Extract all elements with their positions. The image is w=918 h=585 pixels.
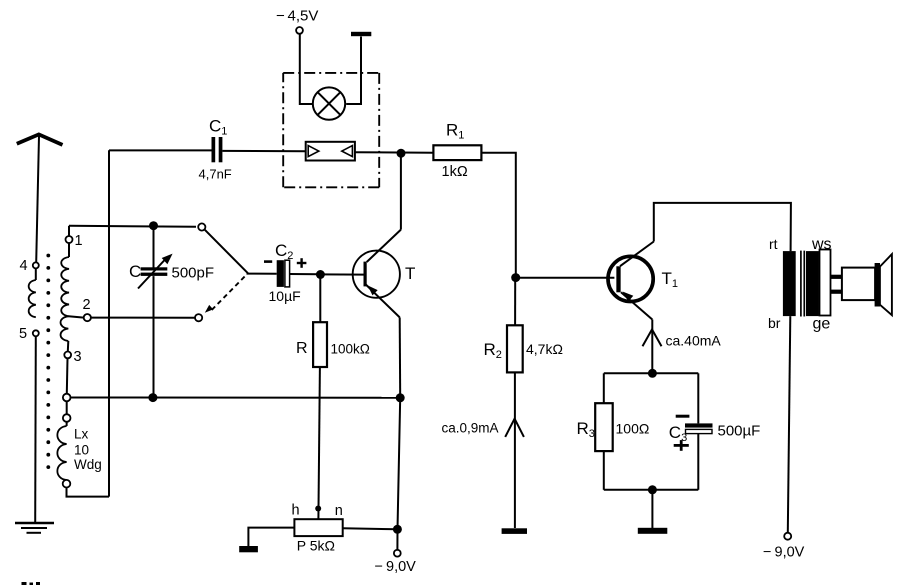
wire terminal 3 down (66, 358, 69, 393)
variable capacitor C 500pF (129, 254, 214, 289)
resistor R3 100 (577, 403, 650, 451)
svg-text:rt: rt (769, 236, 778, 252)
svg-text:R: R (296, 340, 308, 357)
svg-text:P 5kΩ: P 5kΩ (297, 537, 335, 553)
wire C1 to connector (222, 150, 305, 152)
wire feedback rail (left vertical) (108, 150, 110, 496)
wire lamp to chassis (346, 37, 361, 105)
svg-text:T: T (405, 264, 415, 283)
earth ground (antenna coil) (15, 523, 54, 533)
terminal -9,0V (left) (375, 550, 417, 575)
ferrite core (dotted line) (46, 254, 50, 469)
coil tuned winding middle (tap 2 to terminal 3) (61, 316, 69, 351)
wire terminal 5 to earth ground (34, 336, 37, 522)
wire R3 to bottom (603, 451, 605, 490)
switch contact bottom (195, 314, 202, 321)
svg-text:ca.40mA: ca.40mA (666, 332, 722, 348)
lamp (313, 87, 345, 119)
transistor T (353, 230, 416, 318)
wire T1 emitter down (651, 320, 653, 374)
svg-text:Lx: Lx (74, 427, 89, 442)
wire base node to R2 (514, 278, 516, 326)
node collector T (397, 149, 406, 158)
wire tap 2 to switch contact (91, 317, 195, 319)
switch arm (205, 230, 248, 274)
terminal -9,0V (right) (763, 533, 805, 561)
current arrow ca.40mA (643, 329, 722, 348)
node tuning capacitor bottom (148, 393, 157, 402)
node emitter T1 (648, 369, 657, 378)
svg-text:3: 3 (74, 349, 82, 365)
terminal 4 (20, 258, 39, 274)
node emitter T (396, 393, 405, 402)
svg-text:−: − (763, 545, 771, 561)
antenna (17, 134, 63, 145)
wire top to C3 (697, 373, 699, 423)
svg-text:1kΩ: 1kΩ (442, 164, 468, 180)
svg-text:ge: ge (813, 315, 831, 332)
resistor R2 4,7k (484, 325, 563, 372)
svg-text:10µF: 10µF (269, 288, 301, 304)
svg-text:T1: T1 (662, 269, 679, 290)
svg-text:9,0V: 9,0V (775, 545, 805, 561)
wire base node to T1 (516, 277, 615, 279)
resistor R 100k (296, 322, 370, 367)
svg-text:4,5V: 4,5V (288, 8, 319, 25)
svg-text:n: n (335, 503, 343, 519)
terminal 1 (66, 233, 83, 249)
capacitor C2 10uF (264, 241, 306, 304)
wire T1 collector to transformer (654, 203, 791, 251)
coil terminal (Lx winding top) (63, 414, 71, 422)
svg-text:ca.0,9mA: ca.0,9mA (442, 421, 499, 436)
wire top to R3 (603, 373, 605, 403)
wire switch to C2 (247, 273, 277, 275)
svg-text:R1: R1 (446, 121, 464, 142)
svg-text:2: 2 (83, 297, 91, 313)
current arrow ca.0,9mA (442, 419, 524, 437)
potentiometer P 5k (292, 502, 343, 553)
wire transformer to -9V terminal (788, 316, 791, 532)
wire T collector to node (400, 153, 402, 229)
svg-text:C2: C2 (275, 241, 293, 262)
chassis ground (R2) (502, 528, 527, 534)
svg-text:br: br (768, 315, 781, 331)
svg-text:5: 5 (19, 326, 27, 342)
svg-text:4,7nF: 4,7nF (199, 166, 232, 181)
tap 2 (69, 297, 91, 321)
coil Lx 10 Wdg winding (57, 422, 101, 480)
wire rail to C1 (109, 149, 212, 151)
coil terminal (Lx winding bottom) (63, 480, 71, 488)
transformer core (801, 251, 804, 317)
svg-text:−: − (276, 8, 285, 25)
wire C2 to base node (290, 273, 321, 275)
chassis ground (lamp) (351, 32, 371, 36)
label ws (811, 236, 832, 253)
wire R3 C3 network bottom (604, 489, 699, 491)
node tuning capacitor top (149, 221, 158, 230)
switch alternate position (dashed arrow) (205, 277, 245, 313)
wire base node to T (320, 273, 363, 275)
chassis ground (potentiometer) (239, 546, 258, 552)
svg-text:C1: C1 (209, 117, 227, 138)
wire R1 to base node T1 (481, 153, 515, 278)
svg-text:R3: R3 (577, 419, 595, 440)
wire tuning node (terminal 1 to switch) (69, 226, 196, 227)
wire T emitter down (399, 317, 402, 397)
svg-text:10: 10 (74, 443, 89, 458)
svg-text:ws: ws (811, 236, 832, 253)
wire C3 to bottom (697, 434, 699, 490)
chassis ground (R3 C3) (638, 528, 668, 534)
label rt (769, 236, 778, 252)
wire R2 to ground (514, 372, 516, 528)
capacitor C1 (199, 117, 232, 182)
wire R to potentiometer wiper (318, 367, 320, 519)
wire between coil terminals (66, 401, 68, 414)
svg-text:Wdg: Wdg (74, 457, 102, 472)
transformer secondary winding ws-ge (806, 251, 819, 316)
transformer primary winding rt-br (783, 251, 796, 316)
node base T (316, 270, 325, 279)
svg-text:C3: C3 (669, 423, 687, 444)
switch contact top (198, 223, 205, 230)
svg-text:100Ω: 100Ω (616, 421, 650, 437)
terminal -4,5V (276, 8, 318, 34)
svg-text:500µF: 500µF (718, 423, 761, 440)
node base T1 (511, 273, 520, 282)
resistor R1 (433, 121, 481, 180)
svg-text:h: h (292, 502, 300, 518)
transformer secondary leads (831, 275, 843, 294)
wire terminal 1 up to tuning node wire (68, 226, 70, 236)
coil tuned winding upper (terminal 1 to tap 2) (61, 243, 69, 316)
svg-text:100kΩ: 100kΩ (331, 341, 370, 356)
wire potentiometer to -9V node (343, 528, 398, 529)
wire -4,5V to lamp (300, 34, 314, 104)
svg-text:1: 1 (75, 233, 83, 249)
node ground stub (648, 485, 657, 494)
label ge (813, 315, 831, 332)
svg-text:4,7kΩ: 4,7kΩ (526, 341, 563, 357)
wire connector to R1 (355, 151, 434, 154)
terminal 5 (19, 326, 39, 342)
wire node to variable capacitor (153, 226, 155, 268)
svg-text:C: C (129, 262, 141, 281)
svg-text:500pF: 500pF (172, 264, 215, 281)
svg-text:9,0V: 9,0V (386, 559, 416, 575)
wire R3 C3 network top (604, 372, 699, 374)
wire emitter node to -9V rail (397, 398, 400, 550)
wire base node to R (319, 274, 321, 322)
capacitor C3 500uF (669, 416, 761, 451)
wire node to ground (651, 490, 653, 528)
svg-text:R2: R2 (484, 340, 502, 361)
wire antenna to coil terminal 4 (36, 136, 39, 262)
transistor T1 (608, 242, 678, 320)
terminal 3 (64, 349, 81, 365)
svg-text:4: 4 (20, 258, 28, 274)
speaker (842, 254, 892, 315)
label br (768, 315, 781, 331)
node potentiometer right (393, 525, 402, 534)
transformer former outline (820, 250, 831, 316)
wire potentiometer to chassis (248, 528, 294, 546)
connector (plug symbol) (306, 142, 355, 161)
dash-dot module box (283, 73, 379, 187)
caption fragment (22, 582, 41, 585)
svg-text:−: − (375, 559, 383, 575)
wire variable capacitor to bottom node (153, 276, 155, 393)
wire Lx bottom to feedback rail (67, 488, 110, 497)
wire bottom (coil to emitter node) (71, 397, 401, 399)
coil antenna winding (terminal 4-5) (29, 268, 36, 317)
coil terminal (tuned winding bottom) (63, 394, 71, 402)
